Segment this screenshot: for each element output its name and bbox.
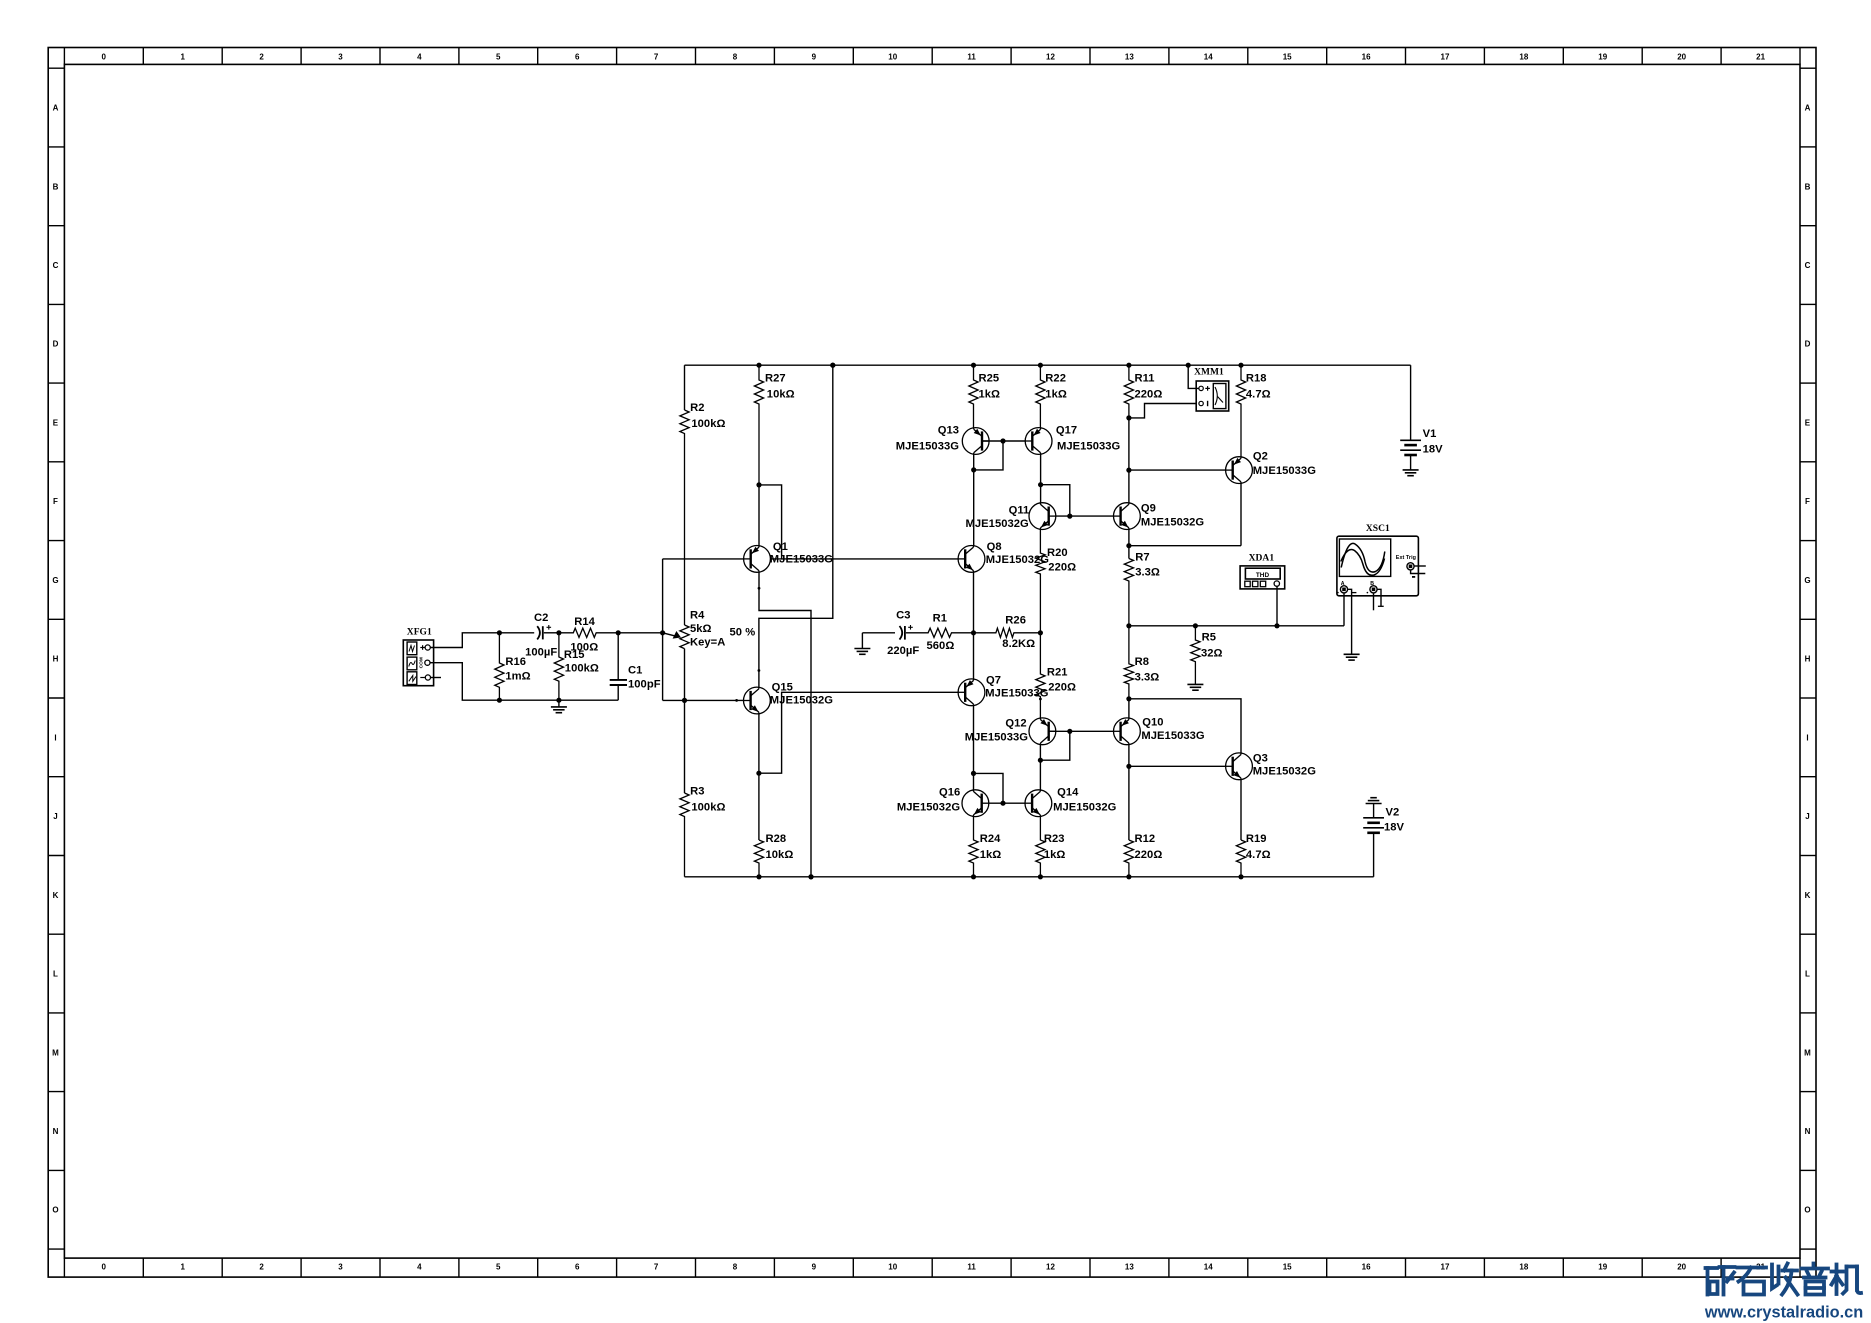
svg-text:100kΩ: 100kΩ [691, 802, 725, 814]
svg-text:Q2: Q2 [1253, 451, 1268, 463]
resistor R21 [1036, 633, 1076, 718]
svg-text:R5: R5 [1202, 632, 1216, 644]
svg-text:32Ω: 32Ω [1201, 648, 1223, 660]
svg-text:XSC1: XSC1 [1366, 524, 1390, 534]
svg-text:R19: R19 [1246, 833, 1267, 845]
resistor R27 [754, 365, 794, 485]
svg-text:0: 0 [102, 1263, 107, 1272]
svg-text:10: 10 [888, 53, 897, 62]
svg-text:MJE15033G: MJE15033G [770, 554, 834, 566]
svg-text:19: 19 [1598, 53, 1607, 62]
wire C3 left [862, 632, 895, 634]
svg-text:1: 1 [180, 1263, 185, 1272]
svg-text:R23: R23 [1044, 833, 1065, 845]
node Q8 Q7 signal node [971, 630, 976, 635]
wire Q3 base row [1129, 765, 1233, 767]
svg-text:R11: R11 [1135, 373, 1155, 385]
resistor R25 [969, 365, 1000, 427]
node R8 bottom junction [1126, 696, 1131, 701]
svg-text:M: M [1804, 1048, 1811, 1057]
svg-text:7: 7 [654, 53, 659, 62]
svg-text:I: I [54, 733, 56, 742]
node bottom rail junctions [756, 874, 1243, 879]
svg-text:1: 1 [180, 53, 185, 62]
wire XFG1 common [430, 663, 618, 701]
resistor R19 [1236, 833, 1270, 877]
transistor Q15 [744, 682, 834, 714]
svg-text:Q11: Q11 [1009, 505, 1030, 517]
svg-text:R1: R1 [933, 613, 947, 625]
svg-text:14: 14 [1204, 1263, 1213, 1272]
wire positive rail feed down to Q15 collector [759, 365, 833, 687]
svg-text:F: F [53, 497, 58, 506]
resistor R24 [969, 817, 1001, 877]
ground below R15 [551, 700, 567, 713]
svg-text:R25: R25 [979, 373, 1000, 385]
node Q1 path bottom rail junction [808, 874, 813, 879]
svg-text:0: 0 [102, 53, 107, 62]
svg-text:MJE15032G: MJE15032G [897, 802, 961, 814]
wire output probe row [1129, 625, 1344, 627]
svg-text:MJE15032G: MJE15032G [1141, 516, 1205, 528]
svg-text:5: 5 [496, 1263, 501, 1272]
node top rail junctions [756, 363, 1243, 368]
wire R11 to Q2 base junction [1128, 418, 1130, 470]
node XMM1 rail junction [1186, 363, 1191, 368]
svg-text:Q3: Q3 [1253, 753, 1268, 765]
svg-text:15: 15 [1283, 53, 1292, 62]
svg-text:1kΩ: 1kΩ [1045, 388, 1067, 400]
svg-text:C1: C1 [628, 665, 642, 677]
svg-text:K: K [53, 891, 59, 900]
node Q11 base node [1067, 514, 1072, 519]
wire Q13 Q17 base link [982, 440, 1032, 442]
wire input signal row [499, 632, 534, 634]
wire XFG1 plus output [430, 633, 499, 648]
resistor R8 [1124, 626, 1159, 699]
bottom ruler column dividers and numbers [64, 1258, 1800, 1277]
svg-text:220Ω: 220Ω [1048, 561, 1076, 573]
wire Q2 emitter down to Q9 emitter row [1240, 484, 1242, 546]
svg-text:B: B [1805, 182, 1811, 191]
svg-text:MJE15033G: MJE15033G [965, 732, 1029, 744]
wire XMM1 current terminal feed [1129, 404, 1199, 418]
resistor R23 [1036, 817, 1066, 877]
node Q7 Q16 junction [971, 771, 976, 776]
svg-text:1kΩ: 1kΩ [1044, 849, 1066, 861]
wire Q7 emitter down to Q16 [973, 706, 975, 790]
svg-text:7: 7 [654, 1263, 659, 1272]
svg-text:O: O [52, 1206, 58, 1215]
svg-text:5: 5 [496, 53, 501, 62]
svg-text:MJE15032G: MJE15032G [770, 695, 834, 707]
wire XSC1 channel A negative to ground [1344, 589, 1360, 660]
wire Q1 base from input node [663, 558, 744, 560]
wire Q15 base line [663, 699, 744, 701]
transistor Q7 [958, 675, 1049, 706]
battery V1 [1400, 365, 1443, 476]
svg-text:14: 14 [1204, 53, 1213, 62]
wire Q11 base to Q9 base [1049, 515, 1121, 517]
svg-text:Q16: Q16 [939, 787, 960, 799]
wire Q2 base row [1129, 469, 1233, 471]
svg-text:Q14: Q14 [1057, 787, 1079, 799]
node XDA1 probe junction [1274, 623, 1279, 628]
svg-text:I: I [1806, 733, 1808, 742]
svg-text:MJE15033G: MJE15033G [1057, 441, 1121, 453]
svg-text:V2: V2 [1386, 807, 1400, 819]
svg-text:H: H [53, 655, 59, 664]
node R16 bottom [497, 698, 502, 703]
node R16 top [497, 630, 502, 635]
svg-text:R14: R14 [574, 616, 595, 628]
svg-text:Q13: Q13 [938, 425, 959, 437]
node R5 top [1193, 623, 1198, 628]
svg-text:MJE15032G: MJE15032G [966, 518, 1030, 530]
node C1 junction [616, 630, 621, 635]
svg-text:MJE15033G: MJE15033G [1253, 465, 1317, 477]
svg-text:6: 6 [575, 1263, 580, 1272]
svg-text:Ext Trig: Ext Trig [1396, 555, 1416, 561]
resistor R1 [906, 613, 974, 653]
svg-text:Q9: Q9 [1141, 503, 1156, 515]
wire Q1 emitter branch to Q8 base net [759, 485, 782, 559]
resistor R16 [495, 633, 531, 700]
svg-text:4: 4 [417, 1263, 422, 1272]
node Q1 emitter junction [756, 482, 761, 487]
node Q2 base junction [1126, 468, 1131, 473]
svg-text:3: 3 [338, 1263, 343, 1272]
ground below R5 [1187, 683, 1203, 685]
svg-text:R28: R28 [766, 833, 787, 845]
svg-text:Q10: Q10 [1142, 717, 1163, 729]
svg-text:18V: 18V [1384, 822, 1405, 834]
capacitor C3 [887, 610, 919, 657]
transistor Q9 [1114, 503, 1205, 530]
svg-text:F: F [1805, 497, 1810, 506]
wire R14 node to input node [618, 632, 662, 634]
svg-text:R16: R16 [505, 656, 526, 668]
resistor R22 [1036, 365, 1067, 427]
svg-text:100pF: 100pF [628, 679, 661, 691]
svg-text:R3: R3 [690, 786, 704, 798]
transistor Q3 [1226, 753, 1317, 780]
svg-text:8: 8 [733, 1263, 738, 1272]
node Q9 emitter junction [1126, 543, 1131, 548]
wire Q3 emitter to R19 [1240, 780, 1242, 840]
svg-text:2: 2 [259, 1263, 264, 1272]
svg-text:C: C [53, 261, 59, 270]
svg-text:8.2KΩ: 8.2KΩ [1002, 638, 1035, 650]
svg-text:R27: R27 [765, 373, 786, 385]
node Q13 collector junction [971, 467, 976, 472]
svg-text:Q8: Q8 [987, 541, 1002, 553]
svg-text:G: G [52, 576, 58, 585]
watermark crystalradio logo [1704, 1264, 1863, 1322]
svg-text:THD: THD [1256, 572, 1270, 579]
wire negative supply bottom rail [685, 876, 1374, 878]
svg-text:560Ω: 560Ω [927, 640, 955, 652]
function generator XFG1 [403, 628, 433, 686]
resistor R12 [1124, 833, 1162, 877]
svg-text:N: N [1805, 1127, 1811, 1136]
svg-text:12: 12 [1046, 1263, 1055, 1272]
distortion analyzer XDA1 [1240, 553, 1285, 589]
svg-text:XMM1: XMM1 [1194, 368, 1224, 378]
wire Q1 to Q8 base [771, 558, 966, 560]
svg-text:16: 16 [1362, 1263, 1371, 1272]
wire XSC1 channel B stubs [1374, 589, 1384, 610]
svg-text:4.7Ω: 4.7Ω [1246, 388, 1271, 400]
wire Q11 base tie loop [1041, 485, 1070, 516]
wire Q13 base tie loop [974, 441, 1003, 470]
svg-text:N: N [53, 1127, 59, 1136]
svg-text:9: 9 [812, 1263, 817, 1272]
svg-text:Q17: Q17 [1056, 425, 1077, 437]
resistor R18 [1236, 365, 1270, 457]
wire Q8 emitter down to signal node [973, 572, 975, 633]
svg-text:1kΩ: 1kΩ [979, 388, 1001, 400]
svg-text:10: 10 [888, 1263, 897, 1272]
resistor R5 [1191, 626, 1223, 685]
svg-text:D: D [1805, 340, 1811, 349]
svg-text:17: 17 [1441, 1263, 1450, 1272]
svg-text:1kΩ: 1kΩ [980, 849, 1002, 861]
svg-text:COM: COM [418, 657, 424, 668]
wire Q10 emitter to R12 [1128, 745, 1130, 840]
svg-text:11: 11 [967, 53, 976, 62]
transistor Q11 [966, 503, 1056, 530]
wire Q12 base tie loop [1040, 731, 1069, 760]
node R15 top [556, 630, 561, 635]
node Q10 emitter junction [1126, 764, 1131, 769]
svg-text:1mΩ: 1mΩ [505, 670, 530, 682]
svg-text:L: L [53, 970, 58, 979]
wire positive supply top rail [685, 364, 1411, 366]
wire Q13 collector to junction [973, 454, 975, 545]
svg-text:R20: R20 [1047, 547, 1068, 559]
svg-text:E: E [53, 419, 59, 428]
node R11 bottom [1126, 415, 1131, 420]
svg-text:100kΩ: 100kΩ [691, 418, 725, 430]
potentiometer R4 [663, 610, 756, 649]
node Q16 Q14 base node [1000, 801, 1005, 806]
left ruler row dividers and letters [48, 68, 64, 1249]
wire signal node to Q7 collector [973, 633, 975, 679]
svg-text:V1: V1 [1423, 428, 1437, 440]
node R15 bottom ground [556, 698, 561, 703]
wire R27 to Q1 collector [758, 485, 760, 546]
wire XMM1 plus terminal to rail [1188, 365, 1199, 388]
svg-text:20: 20 [1677, 53, 1686, 62]
svg-text:R8: R8 [1135, 656, 1149, 668]
svg-text:R26: R26 [1005, 615, 1026, 627]
resistor R11 [1124, 365, 1162, 418]
svg-text:J: J [53, 812, 58, 821]
svg-text:220Ω: 220Ω [1048, 681, 1076, 693]
svg-text:20: 20 [1677, 1263, 1686, 1272]
svg-text:220Ω: 220Ω [1135, 388, 1163, 400]
svg-text:18: 18 [1519, 53, 1528, 62]
wire XFG1 minus stub [431, 677, 442, 679]
svg-text:220µF: 220µF [887, 645, 919, 657]
node input [660, 630, 665, 635]
wire Q16 base tie loop [974, 773, 1004, 803]
right ruler row dividers and letters [1800, 68, 1816, 1249]
wire junction down to Q9 collector [1128, 470, 1130, 503]
svg-text:21: 21 [1756, 53, 1765, 62]
svg-text:J: J [1805, 812, 1810, 821]
top ruler column dividers and numbers [64, 48, 1800, 65]
svg-text:100kΩ: 100kΩ [565, 663, 599, 675]
wire XSC1 channel A probe [1343, 593, 1345, 626]
svg-text:R24: R24 [980, 833, 1001, 845]
svg-text:4: 4 [417, 53, 422, 62]
wire Q12 base to Q10 base [1049, 730, 1121, 732]
svg-text:5kΩ: 5kΩ [690, 623, 712, 635]
multimeter XMM1 [1194, 368, 1229, 412]
svg-text:O: O [1804, 1206, 1810, 1215]
node R20 R26 R21 junction [1038, 630, 1043, 635]
wire XSC1 ext trig stub [1414, 565, 1426, 567]
transistor Q14 [1025, 787, 1117, 817]
svg-text:www.crystalradio.cn: www.crystalradio.cn [1704, 1303, 1863, 1321]
wire Q15 emitter branch to Q7 base [759, 692, 965, 773]
resistor R3 [680, 649, 726, 877]
svg-text:19: 19 [1598, 1263, 1607, 1272]
battery V2 [1363, 798, 1404, 877]
svg-text:17: 17 [1441, 53, 1450, 62]
svg-text:100Ω: 100Ω [570, 642, 598, 654]
transistor Q17 [1025, 425, 1120, 455]
svg-text:XFG1: XFG1 [407, 628, 432, 638]
svg-text:11: 11 [967, 1263, 976, 1272]
svg-text:K: K [1805, 891, 1811, 900]
svg-text:18: 18 [1519, 1263, 1528, 1272]
transistor Q8 [958, 541, 1049, 572]
svg-text:Key=A: Key=A [690, 637, 725, 649]
svg-text:MJE15032G: MJE15032G [1253, 765, 1317, 777]
wire Q3 collector row [1129, 699, 1241, 753]
svg-text:3.3Ω: 3.3Ω [1135, 566, 1160, 578]
svg-text:B: B [53, 182, 59, 191]
svg-text:50 %: 50 % [730, 627, 756, 639]
resistor R15 [554, 633, 599, 700]
svg-text:L: L [1805, 970, 1810, 979]
resistor R7 [1124, 552, 1160, 626]
svg-text:MJE15033G: MJE15033G [896, 441, 960, 453]
node Q15 emitter junction [756, 771, 761, 776]
wire Q16 base to Q14 base [982, 802, 1032, 804]
svg-text:MJE15033G: MJE15033G [1141, 730, 1205, 742]
svg-text:A: A [1805, 104, 1811, 113]
svg-text:C: C [1805, 261, 1811, 270]
resistor R26 [974, 615, 1041, 651]
wire Q9 emitter to R7 and Q2 emitter row [1128, 530, 1130, 559]
svg-text:MJE15032G: MJE15032G [1053, 802, 1117, 814]
node R7 R8 output junction [1126, 623, 1131, 628]
svg-text:R18: R18 [1246, 373, 1267, 385]
svg-text:2: 2 [259, 53, 264, 62]
transistor Q13 [896, 425, 989, 455]
wire XDA1 probe [1276, 586, 1278, 625]
svg-text:100µF: 100µF [525, 647, 557, 659]
transistor Q10 [1114, 717, 1205, 745]
svg-text:4.7Ω: 4.7Ω [1246, 849, 1271, 861]
svg-text:6: 6 [575, 53, 580, 62]
wire junction down to Q10 collector [1128, 699, 1130, 718]
svg-text:G: G [1804, 576, 1810, 585]
svg-text:18V: 18V [1423, 443, 1444, 455]
capacitor C2 [525, 612, 557, 659]
svg-text:10kΩ: 10kΩ [767, 388, 795, 400]
wire C2 to R15 node [544, 632, 559, 634]
node Q17 Q11 junction [1038, 482, 1043, 487]
resistor R2 [680, 365, 726, 625]
transistor Q16 [897, 787, 989, 817]
transistor Q12 [965, 718, 1056, 745]
svg-text:R21: R21 [1047, 666, 1068, 678]
svg-text:Q7: Q7 [986, 675, 1001, 687]
svg-text:R22: R22 [1045, 373, 1066, 385]
svg-text:3.3Ω: 3.3Ω [1135, 671, 1160, 683]
transistor Q1 [744, 541, 834, 572]
svg-text:15: 15 [1283, 1263, 1292, 1272]
svg-text:XDA1: XDA1 [1249, 553, 1275, 563]
svg-text:A: A [53, 104, 59, 113]
svg-text:13: 13 [1125, 53, 1134, 62]
svg-text:13: 13 [1125, 1263, 1134, 1272]
svg-text:C3: C3 [896, 610, 910, 622]
wire Q12 emitter to Q14 collector [1039, 745, 1041, 790]
svg-text:12: 12 [1046, 53, 1055, 62]
svg-text:16: 16 [1362, 53, 1371, 62]
svg-text:R12: R12 [1135, 833, 1156, 845]
resistor R14 [559, 616, 618, 654]
svg-text:9: 9 [812, 53, 817, 62]
transistor Q2 [1226, 451, 1317, 484]
node Q13 Q17 base node [1000, 438, 1005, 443]
svg-text:M: M [52, 1048, 59, 1057]
svg-text:Q12: Q12 [1005, 718, 1026, 730]
node Q12 base node [1067, 729, 1072, 734]
svg-text:R2: R2 [690, 402, 704, 414]
svg-text:10kΩ: 10kΩ [766, 849, 794, 861]
oscilloscope XSC1 [1337, 524, 1419, 596]
capacitor C1 [610, 633, 661, 700]
svg-text:R4: R4 [690, 610, 705, 622]
svg-text:3: 3 [338, 53, 343, 62]
wire Q15 emitter to R28 [758, 714, 760, 840]
svg-text:8: 8 [733, 53, 738, 62]
svg-text:C2: C2 [534, 612, 548, 624]
wire input node vertical [662, 559, 664, 701]
wire Q1 emitter down to negative rail [759, 572, 811, 877]
svg-text:Q1: Q1 [773, 541, 788, 553]
wire Q17 emitter to Q11 [1040, 454, 1042, 502]
svg-text:H: H [1805, 655, 1811, 664]
svg-text:D: D [53, 340, 59, 349]
svg-text:R7: R7 [1135, 552, 1149, 564]
svg-text:E: E [1805, 419, 1811, 428]
node R4 R3 junction on base line [682, 698, 687, 703]
svg-text:220Ω: 220Ω [1135, 849, 1163, 861]
ground at C3 [854, 633, 870, 655]
resistor R20 [1036, 530, 1076, 633]
resistor R28 [754, 833, 793, 877]
node Q12 junction [1038, 758, 1043, 763]
